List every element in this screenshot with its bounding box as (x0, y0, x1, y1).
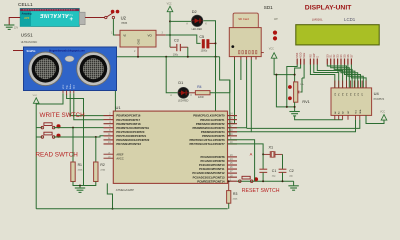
svg-text:R1: R1 (78, 163, 82, 167)
pin 19 U1 PB5 (228, 135, 238, 137)
wire LCD D5 to U4 (345, 65, 361, 88)
node junction U2 GND (137, 56, 139, 58)
svg-text:1000u: 1000u (201, 49, 208, 52)
node junction ground R1R2 (79, 185, 81, 187)
wire LCD D3 to U4 (338, 65, 355, 88)
pin 14 U1 PB0 (228, 115, 238, 117)
wire SD pin2 down (240, 60, 242, 81)
node junction R2 top (95, 136, 97, 138)
pin U4 SDA bottom (359, 115, 361, 119)
wire LCD D2 to U4 (334, 65, 352, 88)
svg-text:SimPin: SimPin (27, 49, 36, 53)
svg-text:PB3/MOSI/OC2A/PCINT3: PB3/MOSI/OC2A/PCINT3 (193, 126, 226, 130)
capacitor C5 1000u electrolytic (199, 35, 215, 53)
wire LCD D7 to U4 (351, 65, 366, 88)
wire LCD RS to U4 P0 (310, 65, 334, 88)
potentiometer RV1 (288, 78, 310, 104)
svg-text:blogembarcado.blogspot.com: blogembarcado.blogspot.com (49, 50, 85, 53)
pin 1 U1 PC6 (228, 180, 238, 182)
pin U4 A1 bottom (338, 115, 340, 119)
wire LCD E to U4 P2 (317, 65, 342, 88)
svg-text:D2: D2 (192, 10, 197, 14)
svg-text:VCC: VCC (33, 95, 38, 97)
node junction VSS ground row (286, 106, 288, 108)
capacitor C2 22p (279, 169, 294, 181)
pin 17 U1 PB3 (228, 127, 238, 129)
svg-text:PB0/ICP1/CLKO/PCINT0: PB0/ICP1/CLKO/PCINT0 (193, 114, 225, 118)
pins SD1 bottom stubs (234, 57, 236, 60)
svg-text:X1: X1 (269, 145, 274, 149)
pin 13 U1 PD7 (104, 143, 114, 145)
pin 12 U1 PD6 (104, 139, 114, 141)
node junction C1 bottom (262, 180, 264, 182)
pin 9 U1 PB6 (228, 139, 238, 141)
pin U4 P2 top (342, 81, 344, 88)
pin U4 A2 bottom (342, 115, 344, 119)
svg-text:LED-RED: LED-RED (178, 100, 189, 103)
wire bus to MCU PB5 (228, 135, 230, 137)
wire LCD D1 to U4 (331, 65, 350, 88)
svg-text:PB6/TOSC1/XTAL1/PCINT6: PB6/TOSC1/XTAL1/PCINT6 (190, 138, 226, 142)
resistor R1 220k (71, 128, 83, 182)
node junction D1 branch (165, 56, 167, 58)
wire reset rail (237, 180, 294, 182)
wire USS1 Trig to U1 PD0 (70, 93, 103, 115)
svg-text:VCC: VCC (167, 2, 172, 5)
svg-text:VCC: VCC (63, 84, 65, 89)
crystal X1 (263, 145, 282, 157)
svg-text:LED-RED: LED-RED (192, 28, 203, 31)
pin 3 U1 PD1 (104, 119, 114, 121)
pin 1 U2 VI (116, 34, 121, 36)
transducer left USS1 (29, 52, 63, 86)
pin U4 A0 bottom (334, 115, 336, 119)
svg-text:PD3/INT1/OC2B/PCINT19: PD3/INT1/OC2B/PCINT19 (116, 126, 149, 130)
node junction R1 top (72, 127, 74, 129)
pin 6 U1 PD4 (104, 131, 114, 133)
svg-text:SDA: SDA (359, 109, 362, 114)
pin 10 U1 PB7 (228, 143, 238, 145)
ultrasonic sensor USS1 board (24, 47, 117, 91)
wire VCC stem down to VO rail and C3 (169, 12, 171, 47)
svg-text:RV1: RV1 (302, 100, 309, 104)
svg-text:PD0/RXD/PCINT16: PD0/RXD/PCINT16 (116, 114, 140, 118)
wire net A vertical (228, 140, 255, 181)
svg-text:R2: R2 (100, 163, 104, 167)
pin 27 U1 PC4 (228, 172, 238, 174)
wire USS1 Echo to U1 PD1 (74, 93, 104, 120)
capacitor C1 22p (259, 154, 276, 181)
svg-text:C2: C2 (289, 169, 294, 173)
svg-text:AVCC: AVCC (116, 156, 123, 160)
microcontroller U1 ATMEGA328P (113, 105, 227, 192)
pin 21 U1 AREF (104, 153, 114, 155)
pin U4 P1 top (338, 81, 340, 88)
wire USS1 VCC pin to VCC trunk (36, 93, 63, 104)
pin 26 U1 PC3 (228, 168, 238, 170)
svg-text:CELL1: CELL1 (18, 2, 33, 8)
svg-text:PC4/ADC4/SDA/PCINT12: PC4/ADC4/SDA/PCINT12 (192, 171, 225, 175)
svg-text:ULTRASONIC: ULTRASONIC (21, 40, 38, 44)
wire U4 VCC pin (366, 115, 384, 123)
wire AVCC vertical to U1 top (215, 57, 217, 111)
svg-text:R3: R3 (233, 192, 237, 196)
svg-text:Echo: Echo (70, 83, 72, 89)
svg-text:PB1/OC1A/PCINT1: PB1/OC1A/PCINT1 (200, 118, 225, 122)
ground GND battery (4, 24, 14, 26)
wire LCD VSS down to ground row (287, 65, 297, 107)
wire crystal right down (282, 154, 284, 169)
wire D1 anode branch (166, 57, 177, 93)
svg-text:VCC: VCC (269, 47, 274, 50)
svg-text:12V: 12V (14, 27, 19, 30)
svg-text:220R: 220R (198, 96, 204, 99)
svg-text:+: + (70, 17, 74, 23)
wire LCD VDD to RV1 top (295, 65, 301, 75)
svg-text:VCC: VCC (380, 111, 385, 114)
pin U4 SCL bottom (355, 115, 357, 119)
wire battery negative to ground (9, 18, 20, 26)
wire SD pin1 to MCU PB2 (228, 60, 235, 124)
wire bus crossing segment (229, 80, 231, 93)
pin 3 U2 VO (156, 34, 166, 36)
svg-text:AREF: AREF (116, 152, 124, 156)
svg-text:LCD1: LCD1 (344, 17, 356, 22)
node junction VCC-D2 (169, 20, 171, 22)
svg-text:READ SWTCH: READ SWTCH (36, 151, 79, 158)
svg-text:PD5/T1/OC0B/PCINT21: PD5/T1/OC0B/PCINT21 (116, 134, 146, 138)
wire RV1 bottom to ground (294, 102, 296, 111)
wire rail to MCU top (114, 57, 116, 111)
wire switch to U2 VI (113, 19, 115, 35)
wire battery positive to switch (85, 17, 105, 19)
pin 4 U1 PD2 (104, 123, 114, 125)
regulator U2 7805 (120, 15, 156, 47)
svg-text:VI: VI (123, 34, 126, 38)
LED D1 LED-RED (170, 81, 192, 102)
node junction C5-D2 rail (215, 56, 217, 58)
wire VCC to D2 anode (170, 20, 191, 22)
wire R4 to SD VCC area (210, 92, 230, 94)
node junction C3 (187, 56, 189, 58)
svg-text:D1: D1 (178, 81, 183, 85)
svg-text:U2: U2 (121, 15, 127, 20)
wire VCC trunk down (35, 103, 37, 209)
svg-text:100u: 100u (173, 53, 179, 56)
wire WRITE switch to U1 PD3 (54, 127, 104, 129)
pin U4 P5 top (353, 81, 355, 88)
svg-text:PC0/ADC0/PCINT8: PC0/ADC0/PCINT8 (200, 155, 225, 159)
svg-text:GND: GND (137, 39, 140, 45)
node junction VDD RV1 (294, 74, 296, 76)
wire U1 PB7 to crystal (228, 144, 264, 155)
pin 2 U2 GND (137, 47, 139, 57)
battery CELL1 (20, 8, 85, 26)
switch SW1 power (105, 10, 120, 19)
wire READ switch to U1 PD5 (54, 136, 104, 137)
svg-text:12V: 12V (24, 16, 29, 20)
node junction X1 left (262, 153, 264, 155)
svg-text:WP: WP (274, 18, 278, 21)
wire ground to U4 address pins (295, 116, 343, 120)
svg-text:A: A (250, 151, 253, 156)
svg-text:VEE: VEE (303, 52, 306, 57)
svg-text:PD1/TXD/PCINT17: PD1/TXD/PCINT17 (116, 118, 140, 122)
svg-text:C1: C1 (272, 169, 277, 173)
svg-text:ALKALINE: ALKALINE (40, 12, 70, 18)
wire VCC feed to RV1 top (274, 58, 295, 82)
wire LCD VEE to RV1 wiper (302, 65, 304, 79)
wire D1 cathode to R4 (189, 92, 195, 94)
ground GND RV1 (289, 111, 299, 113)
node junction VCC branch (275, 74, 277, 76)
wire SD pin4 to MCU PB4 and U4 SCL (228, 60, 252, 132)
svg-text:PD4/T0/XCK/PCINT20: PD4/T0/XCK/PCINT20 (116, 130, 144, 134)
pins USS1 bottom (62, 91, 64, 94)
svg-text:PB4/MISO/PCINT4: PB4/MISO/PCINT4 (201, 130, 225, 134)
svg-text:PC1/ADC1/PCINT9: PC1/ADC1/PCINT9 (200, 159, 225, 163)
svg-text:PB7/TOSC2/XTAL2/PCINT7: PB7/TOSC2/XTAL2/PCINT7 (190, 142, 226, 146)
resistor R2 220k (94, 137, 106, 182)
pin 16 U1 PB2 (228, 123, 238, 125)
pin U4 P7 top (361, 81, 363, 88)
pin 28 U1 PC5 (228, 176, 238, 178)
IO expander U4 PCF8574 (331, 88, 385, 116)
svg-text:Super: Super (67, 13, 73, 15)
svg-text:USS1: USS1 (21, 33, 33, 38)
pin 20 U1 AVCC (104, 157, 114, 159)
svg-text:SD Card: SD Card (238, 17, 249, 21)
svg-text:R4: R4 (197, 85, 201, 89)
svg-text:RESET SWTCH: RESET SWTCH (242, 188, 280, 194)
node junction bottom rail (112, 208, 114, 210)
ground GND resistors (75, 187, 85, 189)
svg-text:PD7/AIN1/PCINT23: PD7/AIN1/PCINT23 (116, 142, 141, 146)
wire test pin left of sensor (13, 50, 24, 52)
wire C3 to ground rail (187, 47, 189, 57)
svg-text:SD1: SD1 (264, 5, 273, 10)
ground GND reset (293, 181, 295, 186)
wire LCD D6 to U4 (348, 65, 363, 88)
transducer right USS1 (77, 52, 111, 86)
pin 5 U1 PD3 (104, 127, 114, 129)
wire VO rail (166, 35, 201, 43)
svg-text:PC5/ADC5/SCL/PCINT13: PC5/ADC5/SCL/PCINT13 (193, 175, 225, 179)
wire bottom VCC rail (36, 208, 228, 210)
resistor R4 220R (195, 85, 210, 99)
pin SD1 WP stub (261, 52, 264, 54)
pin 23 U1 PC0 (228, 156, 238, 158)
svg-text:Amazing: Amazing (22, 13, 33, 16)
LED D2 LED-RED (186, 10, 207, 31)
pin 25 U1 PC2 (228, 164, 238, 166)
svg-text:PD2/INT0/PCINT18: PD2/INT0/PCINT18 (116, 122, 141, 126)
node junction R3 reset (228, 180, 230, 182)
pin 11 U1 PD5 (104, 135, 114, 137)
svg-text:PCF8574: PCF8574 (374, 98, 385, 101)
wire R1 R2 bottoms to ground (73, 182, 96, 186)
pin U4 P3 top (346, 81, 348, 88)
wire VCC branch down to bottom row (276, 75, 294, 107)
svg-text:PD6/AIN0/OC0A/PCINT22: PD6/AIN0/OC0A/PCINT22 (116, 138, 149, 142)
svg-text:WRITE SWTCH: WRITE SWTCH (40, 112, 86, 119)
LCD LCD1 screen (296, 25, 379, 45)
pin U4 P8 top (365, 81, 367, 88)
svg-text:PB2/SS/OC1B/PCINT2: PB2/SS/OC1B/PCINT2 (196, 122, 225, 126)
svg-text:VO: VO (148, 34, 153, 38)
switch READ pushbutton (36, 132, 60, 138)
wire U1 ground to bottom rail (107, 183, 112, 208)
resistor R3 220k (227, 181, 239, 209)
svg-text:C3: C3 (174, 39, 179, 43)
svg-text:C5: C5 (199, 35, 204, 39)
node junction C2 bottom (282, 180, 284, 182)
node junction RV1 ground (294, 106, 296, 108)
pin 24 U1 PC1 (228, 160, 238, 162)
wire LCD D4 to U4 (341, 65, 358, 88)
indicator LED SD red dots (273, 30, 277, 34)
svg-text:U4: U4 (374, 91, 380, 96)
svg-text:LM016L: LM016L (312, 17, 323, 21)
svg-text:ATMEGA328P: ATMEGA328P (116, 188, 134, 192)
pin U4 INT bottom (347, 115, 349, 119)
svg-text:PC6/RESET/PCINT14: PC6/RESET/PCINT14 (197, 179, 225, 183)
SD card SD1 module (229, 13, 261, 57)
wire USS1 Gnd pin down (66, 93, 68, 95)
svg-text:U1: U1 (116, 105, 122, 110)
svg-text:PC3/ADC3/PCINT11: PC3/ADC3/PCINT11 (199, 167, 225, 171)
pin 15 U1 PB1 (228, 119, 238, 121)
wire D2 cathode down to C5 rail (203, 21, 215, 57)
wire LCD D0 to U4 (327, 65, 346, 88)
wire LCD RW to U4 P1 (314, 65, 339, 88)
wire rail right end to SD bus (220, 57, 230, 136)
switch RESET pushbutton (239, 176, 259, 182)
svg-text:PC2/ADC2/PCINT10: PC2/ADC2/PCINT10 (199, 163, 225, 167)
wire ground rail y57 (115, 56, 219, 58)
svg-text:DISPLAY-UNIT: DISPLAY-UNIT (305, 5, 352, 12)
pin U4 P0 top (334, 81, 336, 88)
svg-text:PB5/SCK/PCINT5: PB5/SCK/PCINT5 (202, 134, 225, 138)
pin U4 P6 top (357, 81, 359, 88)
node junction VCC-VO (169, 34, 171, 36)
pin 2 U1 PD0 (104, 115, 114, 117)
wire SD pin3 to MCU PB3 and U4 SDA (228, 60, 247, 128)
switch WRITE pushbutton (36, 123, 60, 129)
svg-text:7805: 7805 (121, 21, 128, 25)
node junction C5-D2 (215, 42, 217, 44)
capacitor C3 100u (170, 39, 188, 57)
pin 18 U1 PB4 (228, 131, 238, 133)
pin U4 P4 top (349, 81, 351, 88)
